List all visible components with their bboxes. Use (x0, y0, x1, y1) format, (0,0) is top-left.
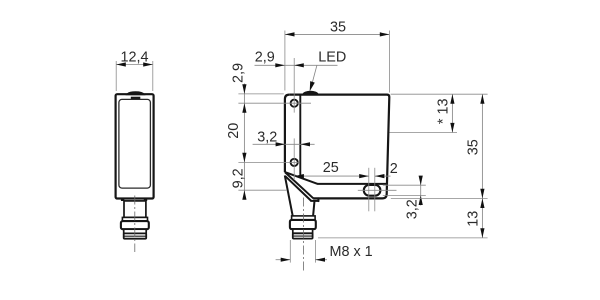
M8 extension lines (290, 240, 315, 263)
svg-text:20: 20 (226, 123, 242, 139)
dim 2,9 horizontal line with tails (255, 64, 338, 66)
svg-text:25: 25 (323, 160, 339, 176)
M8 dimension line right tail (315, 259, 327, 261)
M8 dimension line left tail (276, 259, 291, 261)
centerline of front connector (dash-dot) (302, 198, 304, 271)
connector lip (left view) (122, 217, 147, 221)
svg-text:3,2: 3,2 (257, 129, 277, 145)
sensor body outer shell (left view) (116, 94, 154, 198)
dim *13 arrowheads (450, 94, 454, 132)
connector tip (front view) (293, 233, 313, 238)
dim 35 top line (285, 33, 390, 35)
connector nut ring (front view) (290, 220, 316, 229)
svg-text:35: 35 (330, 19, 346, 35)
dim *13 line (451, 94, 453, 132)
mounting hole bottom (291, 159, 298, 166)
dimension 12,4 arrowheads (116, 62, 153, 66)
dim 35 top extension lines (285, 31, 390, 93)
svg-text:2: 2 (390, 161, 398, 177)
svg-text:* 13: * 13 (436, 98, 452, 124)
dim 3,2 (mounting strip) arrowheads (276, 142, 310, 146)
dim 35/13 right chain line (481, 94, 483, 238)
svg-text:LED: LED (318, 49, 346, 65)
right foot nub (144, 198, 147, 201)
left chain arrowheads (242, 84, 246, 200)
stem right edge (313, 201, 314, 216)
M8 arrowheads (outside) (281, 258, 325, 262)
connector tip inner line (front view) (294, 235, 312, 237)
connector tip inner line (left view) (125, 235, 146, 237)
svg-text:2,9: 2,9 (255, 50, 275, 66)
stem flange step horizontal (311, 200, 319, 202)
connector neck (left view) (124, 201, 146, 218)
dim 2,9 horizontal arrowheads (outside) (275, 63, 304, 67)
left foot nub (121, 198, 124, 201)
svg-text:2,9: 2,9 (231, 63, 247, 83)
slot 3,2 arrowheads (outside) (419, 176, 423, 205)
dim 2 arrowhead (375, 174, 385, 178)
connector lip (front view) (292, 216, 316, 220)
shallow chamfer edge to recessed bottom step (285, 172, 387, 184)
dimension 12,4 line (116, 64, 153, 66)
right chain extension lines (318, 94, 488, 238)
centerline of left connector (dash-dot) (134, 196, 136, 253)
svg-text:13: 13 (465, 211, 481, 227)
left chain dimension line (243, 84, 245, 200)
svg-text:12,4: 12,4 (120, 50, 148, 66)
slot in bottom flange (364, 185, 381, 196)
svg-text:M8 x 1: M8 x 1 (330, 244, 373, 260)
stem flange step vertical (317, 198, 319, 201)
slot 3,2 extension lines (383, 185, 426, 195)
slot centerline (358, 189, 397, 191)
dim 35/13 right chain arrowheads (480, 94, 484, 238)
connector tip (left view) (124, 233, 147, 238)
dim 2,9 horizontal: hole centerline extension (293, 58, 295, 113)
svg-text:35: 35 (465, 139, 481, 155)
upper steep foot diagonal (285, 172, 313, 198)
svg-text:9,2: 9,2 (231, 168, 247, 188)
dim 25 line (294, 175, 369, 177)
dim 35 top arrowheads (285, 32, 390, 36)
inner vertical step edge of mounting strip (299, 95, 301, 178)
connector band 2 (left view) (124, 229, 147, 233)
housing top and right edge with bottom flange (289, 95, 389, 199)
LED leader line (311, 65, 317, 86)
connector band 2 (front view) (293, 229, 313, 233)
housing top-left corner and left edge (285, 95, 289, 173)
dim 25/2 extension lines through slot (369, 168, 375, 212)
mounting hole top (291, 100, 298, 107)
lower steep foot diagonal (285, 176, 311, 201)
LED bump on housing top (303, 91, 318, 94)
connector nut ring (left view) (121, 221, 149, 229)
left chain extension lines (238, 94, 311, 190)
lens bump on top (left view) (127, 92, 144, 95)
dim 2 tail line (375, 175, 391, 177)
inner face outline (left view) (119, 99, 150, 188)
stem left edge (285, 175, 293, 216)
slot 3,2 dimension line (420, 176, 422, 206)
dimension 12,4 extension lines (116, 61, 153, 91)
lens mark under bump (131, 97, 141, 99)
dim 3,2 (mounting strip) hole centerline vertical (293, 138, 295, 180)
dim 25 arrowheads (294, 174, 369, 178)
LED leader arrowhead (310, 81, 315, 91)
svg-text:3,2: 3,2 (404, 199, 420, 219)
dim 3,2 (mounting strip) line (253, 143, 315, 145)
